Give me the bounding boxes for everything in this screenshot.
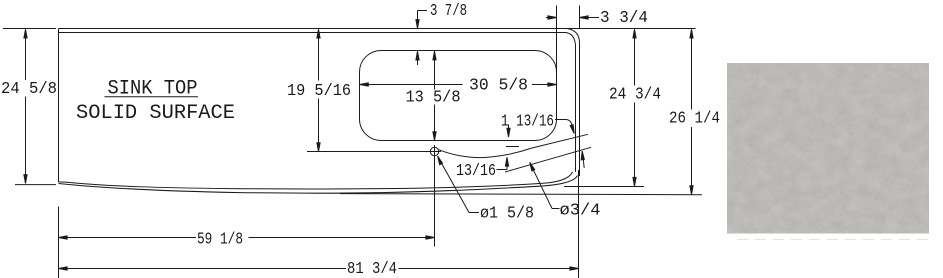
dimension 1 13/16 leader right [555,120,574,134]
svg-text:24 3/4: 24 3/4 [609,86,661,105]
label SOLID SURFACE [76,102,235,125]
dimension 30 5/8 text [469,77,528,96]
dimension 1 13/16 down arrow [507,125,510,138]
dimension 3 7/8 text [430,2,467,21]
countertop bottom edge lower contour [59,176,578,194]
dimension 24 3/4 extension line [564,186,644,188]
dimension 24 3/4 line [633,29,636,186]
extension line left bottom vertical [58,207,60,278]
dimension 1 13/16 text [501,112,554,131]
arrow onto curve C2 from below [581,151,584,168]
dimension 59 1/8 text [197,231,243,250]
label ø3/4 text [560,201,601,220]
dimension 81 3/4 text [347,260,397,278]
dimension 13/16 elbow and up arrow [497,157,509,169]
dimension 81 3/4 line [58,267,578,270]
bowl contour curve C1 [439,134,588,157]
extension line sink right edge up [556,6,558,117]
dimension 59 1/8 extension line [434,229,436,247]
label SINK TOP [105,78,199,101]
faucet hole center extension line [307,151,441,153]
dimension 3 3/4 text [600,9,648,28]
dimension 3 3/4 arrows [546,16,599,19]
bowl contour curve C2 [505,147,591,172]
svg-text:ø3/4: ø3/4 [560,201,601,220]
svg-text:30 5/8: 30 5/8 [469,77,528,96]
dimension 19 5/16 line [317,29,320,151]
svg-text:ø1 5/8: ø1 5/8 [480,204,534,223]
svg-text:3 7/8: 3 7/8 [430,2,467,21]
svg-text:26 1/4: 26 1/4 [669,110,720,129]
svg-text:13 5/8: 13 5/8 [406,89,461,108]
countertop top edge outer line (extends right as extension line) [3,28,696,30]
svg-text:SOLID SURFACE: SOLID SURFACE [76,102,235,125]
dimension 26 1/4 text [669,110,720,129]
extension line countertop right edge up [579,6,581,29]
faucet hole circle [430,147,438,155]
countertop top edge inner line [59,33,576,173]
sink cutout rounded rectangle [360,51,557,141]
svg-text:81 3/4: 81 3/4 [347,260,397,278]
svg-text:1 13/16: 1 13/16 [501,112,554,131]
label ø1 5/8 text [480,204,534,223]
dimension 13 5/8 line [433,51,436,140]
dimension 3 7/8 lower arrow [416,51,419,65]
dimension 3 7/8 leader [416,11,427,29]
svg-text:13/16: 13/16 [456,162,496,181]
dimension 30 5/8 line [360,83,557,86]
dimension 24 3/4 text [609,86,661,105]
dimension 24 5/8 bottom extension line [15,184,56,186]
extension line right bottom vertical [578,170,580,278]
dimension 24 5/8 line [24,29,27,183]
svg-text:3 3/4: 3 3/4 [600,9,648,28]
svg-text:19 5/16: 19 5/16 [287,82,351,101]
material swatch [727,63,929,234]
countertop right edge outer with top corner [567,29,580,177]
dimension 13/16 text [456,162,496,181]
dimension 1 13/16 tick [506,146,519,148]
leader ø1 5/8 [438,156,479,213]
leader ø3/4 [530,162,560,208]
svg-text:24 5/8: 24 5/8 [1,80,57,99]
svg-text:59 1/8: 59 1/8 [197,231,243,250]
faucet hole vertical centerline [434,145,436,246]
faint dashed line below swatch [737,239,929,241]
dimension 26 1/4 line [690,29,693,194]
dimension 19 5/16 text [287,82,351,101]
countertop bottom edge upper contour [59,172,573,189]
extension line bottom (26 1/4 reference) [340,194,702,195]
dimension 24 5/8 text [1,80,57,99]
countertop left edge [58,29,60,183]
dimension 59 1/8 line [58,236,434,239]
dimension 13 5/8 text [406,89,461,108]
